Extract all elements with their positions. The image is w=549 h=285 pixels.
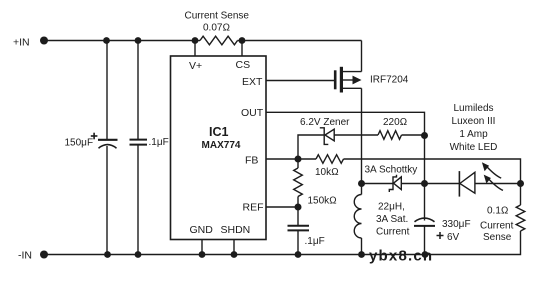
- svg-text:SHDN: SHDN: [221, 224, 251, 236]
- capacitor C4 330uF lead top: [424, 184, 426, 221]
- junction dot 150uF top: [103, 37, 110, 44]
- diode D1 zener 6.2V cathode bar: [320, 128, 329, 145]
- resistor R4 150k lead bottom: [297, 197, 299, 208]
- svg-text:IC1: IC1: [209, 125, 229, 139]
- label Lumileds Luxeon III 1 Amp White LED: [450, 103, 498, 153]
- svg-text:ybx8.cn: ybx8.cn: [369, 248, 433, 265]
- junction dot .1uF bottom: [135, 251, 142, 258]
- junction dot REF node: [295, 204, 302, 211]
- wire drain rail upper: [361, 41, 363, 72]
- junction dot V+ stub: [192, 37, 199, 44]
- wire FB node up to zener: [298, 135, 324, 159]
- inductor L1 lead bottom: [361, 238, 363, 255]
- wire EXT to MOSFET gate: [266, 80, 334, 82]
- svg-text:V+: V+: [189, 60, 202, 72]
- wire top rail from +IN to 0.07 ohm resistor: [44, 40, 200, 42]
- polarity plus mark C4: [437, 232, 444, 239]
- svg-text:150kΩ: 150kΩ: [308, 196, 337, 207]
- svg-text:22μH,: 22μH,: [378, 202, 405, 213]
- svg-text:GND: GND: [190, 224, 214, 236]
- svg-text:-IN: -IN: [18, 249, 32, 261]
- svg-text:0.1Ω: 0.1Ω: [487, 206, 509, 217]
- capacitor C2 .1uF plates: [130, 140, 148, 145]
- wire output node vertical: [424, 136, 426, 184]
- svg-text:OUT: OUT: [241, 107, 264, 119]
- resistor R-sense 0.07 ohm (zigzag): [200, 36, 238, 45]
- wire top rail from 0.07 ohm to MOSFET drain corner: [238, 40, 362, 42]
- capacitor C1 150uF plates: [98, 140, 118, 148]
- inductor L1 22uH coils: [354, 195, 361, 239]
- svg-text:1 Amp: 1 Amp: [459, 129, 488, 140]
- value label 22uH 3A Sat. Current: [376, 202, 410, 238]
- transistor Q1 IRF7204 gate bar: [334, 70, 337, 89]
- svg-text:White LED: White LED: [450, 142, 498, 153]
- transistor Q1 drain connector: [343, 87, 362, 89]
- svg-text:6.2V Zener: 6.2V Zener: [300, 117, 350, 128]
- wire drain rail lower to schottky node: [361, 88, 363, 183]
- capacitor C1 150uF lead bottom: [106, 146, 108, 255]
- capacitor C4 330uF lead bottom: [424, 226, 426, 255]
- inductor L1 lead top: [361, 184, 363, 195]
- capacitor C1 150uF lead top: [106, 41, 108, 140]
- resistor R4 150k lead top: [297, 159, 299, 168]
- svg-text:FB: FB: [245, 155, 258, 167]
- LED D3 cathode bar: [458, 171, 460, 197]
- svg-text:0.07Ω: 0.07Ω: [203, 23, 230, 34]
- svg-text:6V: 6V: [447, 232, 460, 243]
- junction dot 150uF bottom: [104, 251, 111, 258]
- wire schottky anode to output node: [401, 183, 424, 185]
- diode D2 schottky triangle: [394, 177, 402, 190]
- svg-text:3A Schottky: 3A Schottky: [365, 165, 418, 176]
- junction dot OUT/220 node: [421, 132, 428, 139]
- value label 0.1 ohm Current Sense: [480, 206, 514, 244]
- wire SHDN pin stub: [233, 240, 235, 255]
- wire zener to 220 ohm: [334, 134, 378, 136]
- resistor R5 0.1 ohm (zigzag): [516, 205, 525, 231]
- svg-text:Current: Current: [376, 227, 410, 238]
- transistor Q1 source connector: [343, 71, 362, 73]
- svg-text:+IN: +IN: [13, 37, 30, 49]
- svg-text:330μF: 330μF: [442, 219, 471, 230]
- wire CS pin stub: [241, 41, 243, 57]
- resistor R5 0.1 ohm lead top: [520, 184, 522, 206]
- wire 0.1 ohm to bottom rail: [44, 231, 521, 255]
- junction dot CS stub: [239, 37, 246, 44]
- wire schottky node to schottky cathode: [362, 183, 394, 185]
- wire GND pin stub: [201, 240, 203, 255]
- svg-text:Lumileds: Lumileds: [453, 103, 493, 114]
- wire LED anode to sense node: [475, 183, 521, 185]
- polarity plus mark C1: [91, 133, 98, 140]
- svg-text:.1μF: .1μF: [305, 236, 325, 247]
- junction dot current sense node: [517, 180, 524, 187]
- svg-text:Current: Current: [480, 221, 514, 232]
- svg-text:IRF7204: IRF7204: [370, 75, 409, 86]
- svg-text:150μF: 150μF: [65, 138, 94, 149]
- capacitor C4 330uF plates: [414, 218, 435, 226]
- svg-text:MAX774: MAX774: [202, 140, 241, 151]
- svg-text:.1μF: .1μF: [149, 137, 169, 148]
- svg-text:Current Sense: Current Sense: [185, 10, 250, 21]
- svg-text:REF: REF: [243, 202, 264, 214]
- transistor Q1 body arrow: [343, 76, 362, 85]
- diode D1 zener triangle: [325, 129, 334, 141]
- wire V+ pin stub: [194, 41, 196, 57]
- wire 220 ohm to OUT node: [402, 134, 425, 136]
- transistor Q1 channel bar: [340, 67, 343, 93]
- wire FB row to current sense corner: [344, 159, 521, 184]
- wire REF pin to REF node: [266, 206, 298, 208]
- resistor R3 220 ohm (zigzag): [378, 131, 402, 140]
- svg-text:Luxeon III: Luxeon III: [452, 116, 496, 127]
- LED D3 triangle: [460, 172, 475, 193]
- LED D3 emission arrow 1: [482, 162, 501, 178]
- capacitor C3 .1uF lead bottom: [297, 231, 299, 255]
- capacitor C2 .1uF lead bottom: [137, 145, 139, 255]
- junction dot .1uF top: [135, 37, 142, 44]
- svg-text:Sense: Sense: [483, 232, 512, 243]
- LED D3 emission arrow 2: [484, 175, 503, 191]
- terminal dot -IN: [40, 251, 48, 259]
- capacitor C2 .1uF lead top: [137, 41, 139, 140]
- terminal dot +IN: [40, 37, 48, 45]
- junction dot GND stub: [199, 251, 206, 258]
- junction dot schottky/inductor node: [358, 180, 365, 187]
- diode D2 schottky cathode bar: [389, 175, 396, 192]
- svg-text:10kΩ: 10kΩ: [315, 167, 339, 178]
- junction dot output node: [421, 180, 428, 187]
- svg-text:220Ω: 220Ω: [383, 117, 407, 128]
- wire OUT pin to 220 ohm node: [266, 112, 425, 135]
- svg-text:3A Sat.: 3A Sat.: [376, 214, 408, 225]
- junction dot C4 bottom: [422, 251, 429, 258]
- capacitor C3 .1uF lead top: [297, 207, 299, 226]
- junction dot L1 bottom: [358, 251, 365, 258]
- resistor R2 10k (zigzag): [316, 155, 344, 164]
- junction dot FB node: [295, 156, 302, 163]
- IC1 MAX774 box: [171, 56, 267, 240]
- capacitor C3 .1uF plates: [288, 226, 310, 231]
- junction dot SHDN stub: [231, 251, 238, 258]
- resistor R4 150k (zigzag): [294, 168, 303, 197]
- svg-text:EXT: EXT: [242, 76, 263, 88]
- wire FB pin to FB node: [266, 158, 316, 160]
- svg-text:CS: CS: [236, 59, 251, 71]
- wire output node to LED cathode: [425, 183, 460, 185]
- junction dot C3 bottom: [295, 251, 302, 258]
